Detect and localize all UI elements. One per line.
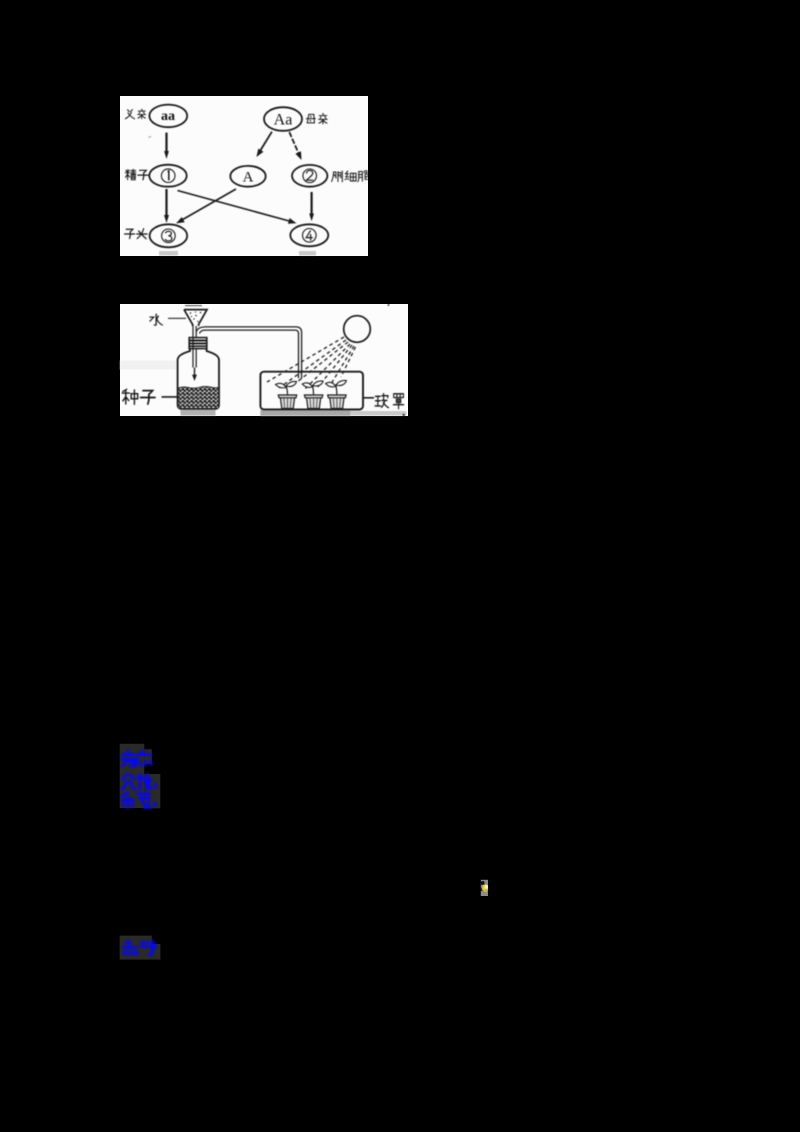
leader line from 种子 to bottle — [162, 396, 178, 398]
dark backing behind link text row 4 — [120, 936, 161, 960]
scan smudge under jar — [260, 410, 350, 416]
wire node1 to node4 (diagonal) — [178, 191, 297, 224]
node 1 circled — [149, 165, 186, 187]
scan smudge right of jar smudge — [350, 411, 406, 416]
blue link text row 3 (解答) — [122, 793, 155, 809]
blue link text row 2 (分析) — [122, 774, 156, 790]
bottle body — [178, 349, 219, 409]
label 卵细胞 (egg cell) — [332, 171, 369, 182]
label 子女 (children) — [125, 229, 148, 239]
label 水 (water) — [150, 314, 162, 325]
wire A to node3 (diagonal) — [176, 189, 236, 223]
leader line from jar to 玻罩 — [363, 397, 374, 399]
svg-text:aa: aa — [161, 109, 175, 124]
water drops in funnel — [187, 311, 204, 322]
svg-text:Aa: Aa — [274, 111, 293, 128]
scan smudge under node4 — [299, 251, 316, 256]
label 父亲 (father) — [125, 109, 145, 119]
stray mark — [149, 137, 152, 138]
label 玻罩 (bell jar) — [375, 394, 404, 409]
glyph definitions (hand-drawn CJK strokes) — [0, 0, 5, 5]
label 母亲 (mother) — [306, 113, 327, 123]
scan smudge under node3 — [159, 251, 178, 256]
wire aa to node1 — [164, 133, 169, 159]
bell jar — [260, 372, 363, 410]
tube from funnel to bell jar (double line) — [196, 327, 301, 379]
dark backing behind link text — [120, 744, 161, 809]
stem arrow inside bottle — [192, 368, 197, 382]
node 2 circled — [292, 165, 327, 187]
node 4 circled — [290, 224, 328, 246]
sun — [344, 316, 371, 343]
label 精子 (sperm) — [125, 169, 148, 179]
potted plant 2 — [302, 381, 323, 409]
seeds in bottle — [179, 387, 218, 408]
scan smudge under bottle — [181, 410, 216, 416]
svg-text:A: A — [243, 170, 254, 186]
funnel — [184, 306, 207, 326]
wire Aa to A — [256, 132, 272, 157]
blue link text row 1 (考点) — [122, 751, 152, 767]
sun rays (dashed) — [267, 337, 356, 389]
blue link text row 4 (点评) — [123, 940, 155, 954]
notch on bottom edge — [403, 414, 405, 416]
cursor icon — [479, 878, 491, 898]
potted plant 3 — [326, 380, 347, 408]
node A — [230, 166, 265, 187]
node aa (father genotype ellipse) — [149, 105, 187, 128]
leader line from 水 to funnel — [168, 317, 186, 319]
faint smudge left — [120, 361, 176, 370]
wire Aa to node2 — [289, 132, 301, 160]
node Aa (mother genotype ellipse) — [264, 107, 302, 131]
node 3 circled — [150, 224, 188, 247]
wire node2 to node4 — [309, 192, 314, 221]
potted plant 1 — [276, 381, 297, 408]
wire node1 to node3 — [164, 189, 169, 223]
funnel stem through cap — [193, 325, 196, 368]
bottle cap bands — [189, 338, 207, 349]
label 种子 (seeds) — [122, 389, 155, 404]
notch on top edge — [388, 304, 390, 306]
